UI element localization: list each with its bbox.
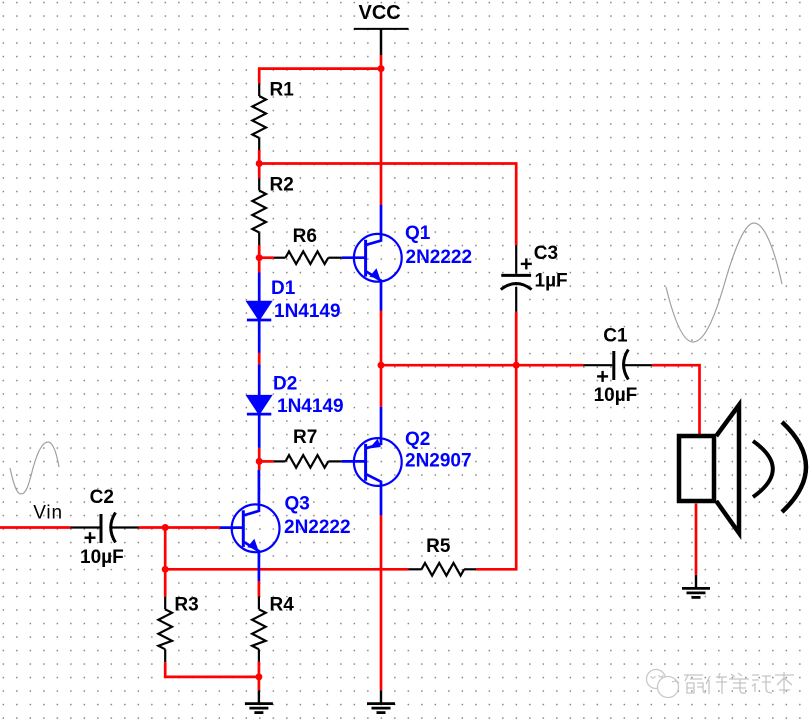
ground main rail	[367, 690, 395, 712]
resistor R7	[274, 455, 342, 468]
watermark text	[684, 672, 794, 694]
wire node to Q3 base	[165, 526, 220, 529]
svg-text:R7: R7	[293, 427, 317, 448]
transistor Q1	[342, 205, 402, 311]
wire R3 top	[164, 569, 167, 596]
power VCC symbol	[354, 29, 409, 55]
label C2 plus	[85, 532, 96, 543]
wire mid horizontal to C3 branch	[259, 164, 516, 246]
wire R2 bottom	[258, 245, 261, 258]
ground under R3/R4	[245, 690, 273, 712]
wire C3 bottom	[515, 312, 518, 365]
wire between diodes	[258, 353, 261, 365]
node C2 output junction	[162, 524, 169, 531]
wire R6 stub	[259, 256, 274, 259]
svg-text:2N2222: 2N2222	[284, 517, 351, 538]
wire speaker to ground	[695, 504, 698, 575]
wire Q1 emitter to Q2 emitter	[380, 311, 383, 407]
wire R4 bottom to ground	[258, 662, 261, 691]
wire Vin input	[0, 526, 70, 529]
label C3 plus	[521, 258, 532, 269]
wire top horizontal R1 to rail	[259, 69, 381, 84]
svg-text:Vin: Vin	[33, 503, 63, 524]
wire VCC stub	[380, 55, 383, 69]
wire rail upper segment	[380, 69, 383, 205]
wire feedback horizontal	[165, 568, 408, 571]
node R2/R6/D1 junction	[256, 254, 263, 261]
svg-text:R5: R5	[426, 536, 451, 557]
resistor R4	[252, 597, 266, 662]
wire R3 bottom to node	[165, 662, 259, 677]
svg-text:1µF: 1µF	[535, 271, 568, 292]
svg-text:Q2: Q2	[405, 429, 430, 450]
wire D2 cathode to Q3	[258, 448, 261, 470]
wire R1 bottom	[258, 150, 261, 165]
watermark logo	[647, 670, 680, 698]
diode D2	[247, 364, 271, 447]
resistor R2	[252, 178, 266, 245]
node R3/R4 ground junction	[255, 673, 262, 680]
svg-text:R6: R6	[293, 226, 317, 247]
svg-text:R3: R3	[174, 595, 198, 616]
svg-text:Q3: Q3	[285, 494, 310, 515]
svg-text:C3: C3	[534, 243, 558, 264]
svg-text:10µF: 10µF	[80, 547, 124, 568]
node VCC tee	[378, 65, 385, 72]
wire R2 top	[258, 164, 261, 179]
wire D1 anode stub	[258, 258, 261, 273]
svg-text:1N4149: 1N4149	[274, 301, 341, 322]
speaker	[679, 405, 806, 533]
node feedback junction	[162, 566, 169, 573]
decor sine right	[666, 223, 782, 342]
transistor Q3	[220, 470, 280, 581]
node R1/R2 junction	[256, 160, 263, 167]
svg-text:C1: C1	[603, 326, 628, 347]
svg-text:R4: R4	[270, 595, 295, 616]
node D2/R7 junction	[256, 458, 263, 465]
wire output horizontal	[381, 364, 583, 367]
svg-text:VCC: VCC	[359, 2, 401, 24]
wire Q2 collector to ground	[380, 515, 383, 690]
svg-text:1N4149: 1N4149	[277, 396, 344, 417]
node output junction	[378, 362, 385, 369]
ground speaker	[682, 575, 710, 598]
transistor Q2	[342, 407, 402, 515]
svg-text:R1: R1	[270, 80, 295, 101]
svg-text:2N2222: 2N2222	[406, 247, 473, 268]
resistor R6	[274, 251, 342, 264]
wire node drop	[164, 528, 167, 570]
resistor R1	[252, 83, 266, 150]
diode D1	[247, 273, 271, 353]
node C3/C1 junction	[513, 362, 520, 369]
capacitor C3	[501, 245, 532, 312]
svg-text:R2: R2	[270, 175, 294, 196]
svg-text:10µF: 10µF	[594, 385, 638, 406]
resistor R5	[409, 563, 477, 576]
resistor R3	[158, 597, 172, 663]
svg-text:Q1: Q1	[405, 223, 431, 244]
svg-text:D2: D2	[273, 374, 297, 395]
capacitor C1	[583, 350, 652, 381]
capacitor C2	[70, 513, 138, 544]
wire C1 to speaker	[652, 365, 700, 434]
svg-text:D1: D1	[271, 278, 296, 299]
wire R5 right to C3 node	[476, 365, 516, 569]
decor sine left	[10, 442, 59, 494]
wire R4 top	[258, 581, 261, 597]
svg-text:2N2907: 2N2907	[405, 451, 472, 472]
label C1 plus	[597, 371, 608, 382]
wire R7 stub	[259, 460, 274, 463]
svg-text:C2: C2	[90, 487, 114, 508]
wire C2 to node	[139, 526, 166, 529]
